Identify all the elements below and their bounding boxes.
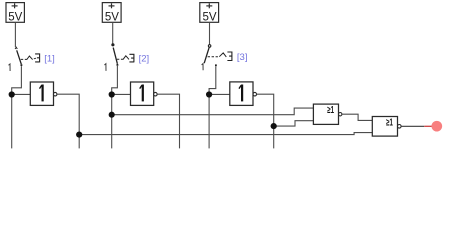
wire U5 output [401,125,424,127]
svg-text:[1]: [1] [44,53,55,64]
wire red lead to indicator [424,125,432,127]
NOT gate U3 [230,82,257,106]
wire U1 output to node D [57,94,79,134]
wire node D vertical drop [78,135,80,149]
wire S2 to node B [112,66,118,94]
wire node B2 bus to U4 input 1 [112,108,314,115]
wire node E to U4 input 2 [274,121,314,126]
power source V2 +5V [102,3,121,23]
wire S3 to node C [209,66,216,94]
wire V1 to switch S1 [14,22,16,47]
wire node C to U3 input [209,93,230,95]
wire U2 output drop [157,94,179,148]
wire U3 output to node E [257,94,274,126]
wire node E vertical drop [273,126,275,148]
node D junction [76,132,82,138]
node C junction [206,91,212,97]
svg-text:[2]: [2] [139,53,150,64]
switch S3 (open, key 3) [202,45,232,71]
svg-text:5V: 5V [8,12,22,24]
wire node B to U2 input [112,93,131,95]
wire node A to U1 input [12,93,31,95]
svg-text:5V: 5V [105,12,119,24]
output indicator LED (lit) [431,121,442,132]
NOR gate U5 [372,117,401,137]
svg-text:5V: 5V [202,12,216,24]
svg-text:≥1: ≥1 [386,117,393,128]
power source V1 +5V [6,3,24,23]
node B junction [109,91,115,97]
svg-text:[3]: [3] [237,52,248,63]
NOT gate U2 [131,82,158,105]
wire node B vertical drop [111,94,113,148]
power source V3 +5V [200,3,219,23]
svg-text:≥1: ≥1 [327,105,334,116]
node E junction [271,123,277,129]
node B2 junction [109,112,115,118]
wire S1 to node A [12,66,22,94]
wire V2 to switch S2 [112,22,114,43]
wire U4 output to U5 input 1 [342,114,372,120]
NOR gate U4 [313,104,342,124]
wire node A vertical drop [11,94,13,148]
switch S2 (closed, key 2) [104,44,133,71]
wire V3 to switch S3 [209,22,211,44]
wire node D bus to U5 input 2 [79,133,372,135]
switch S1 (closed, key 1) [9,47,40,71]
wire node C vertical drop [208,94,210,148]
node A junction [9,91,15,97]
NOT gate U1 [30,82,57,105]
